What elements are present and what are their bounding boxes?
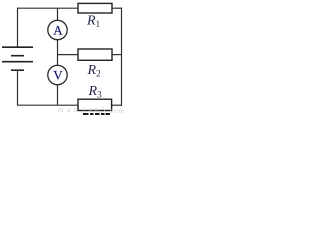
wire R2 right bbox=[112, 54, 122, 56]
wire left rail top bbox=[17, 8, 19, 47]
watermark gray text bbox=[58, 106, 125, 115]
battery cell plate short bbox=[11, 55, 24, 57]
wire branch to R2 bbox=[58, 54, 79, 56]
resistor R3 bbox=[78, 99, 112, 110]
wire bottom bbox=[17, 104, 79, 106]
wire top bbox=[17, 7, 79, 9]
wire left rail bottom bbox=[17, 70, 19, 105]
wire R1 right bbox=[112, 7, 122, 9]
wire R3 right bbox=[112, 104, 122, 106]
battery cell plate long top bbox=[2, 46, 33, 48]
battery cell plate short bottom bbox=[11, 69, 24, 71]
svg-text:A: A bbox=[53, 22, 63, 37]
voltmeter V bbox=[48, 65, 67, 84]
resistor R1 bbox=[78, 3, 112, 13]
svg-text:V: V bbox=[53, 67, 63, 82]
svg-text:man: man bbox=[58, 106, 78, 114]
cut-off text bottom bbox=[83, 113, 110, 115]
wire right rail bbox=[121, 8, 123, 106]
wire voltmeter stub bottom bbox=[57, 85, 59, 106]
wire ammeter stub bbox=[57, 8, 59, 21]
resistor R2 bbox=[78, 49, 112, 60]
battery cell plate long bottom bbox=[2, 61, 33, 63]
wire ammeter to voltmeter bbox=[57, 40, 59, 66]
svg-text:com: com bbox=[110, 107, 125, 115]
ammeter A bbox=[48, 20, 67, 39]
